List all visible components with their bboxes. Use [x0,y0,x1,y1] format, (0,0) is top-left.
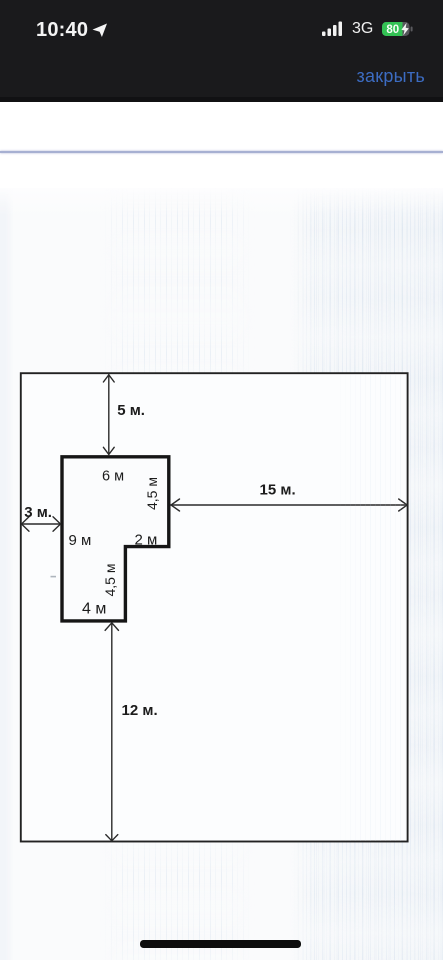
svg-text:4 м: 4 м [82,601,106,618]
svg-text:15 м.: 15 м. [260,482,296,499]
svg-text:3 м.: 3 м. [24,504,52,521]
svg-text:5 м.: 5 м. [117,402,145,419]
svg-text:2 м: 2 м [135,532,158,549]
svg-text:6 м: 6 м [102,469,124,485]
svg-text:12 м.: 12 м. [122,702,158,719]
svg-text:4,5 м: 4,5 м [144,477,160,510]
svg-text:9 м: 9 м [69,532,92,549]
svg-text:4,5 м: 4,5 м [102,564,118,597]
